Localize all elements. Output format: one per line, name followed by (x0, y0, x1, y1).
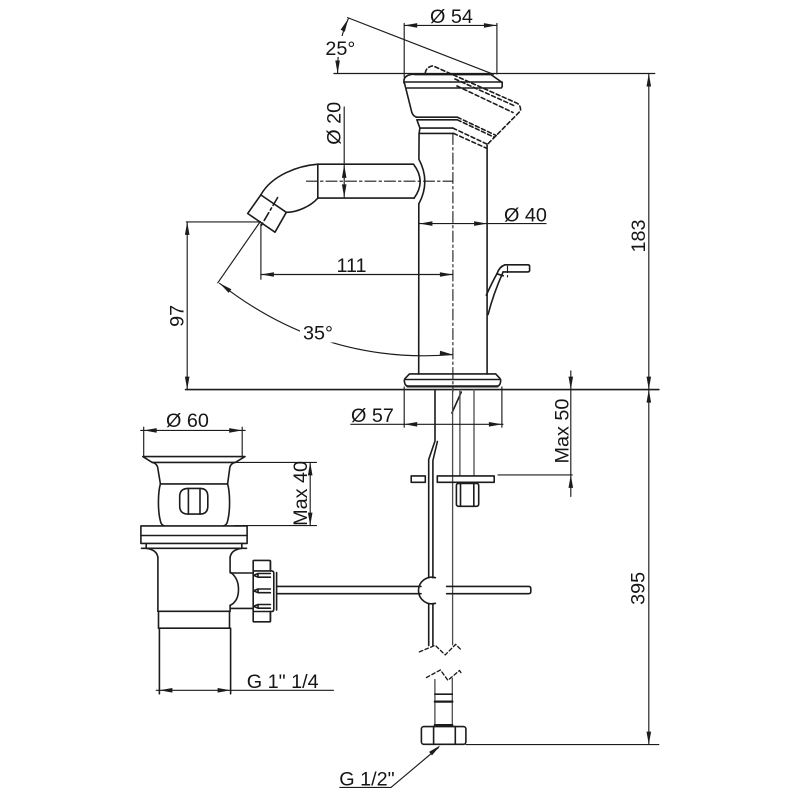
linkage housing on drain (230, 572, 253, 608)
lever handle (486, 265, 529, 315)
svg-text:Max 40: Max 40 (290, 461, 312, 526)
sink washer flange (141, 526, 247, 548)
dim 183 line (648, 74, 650, 390)
dim Ø40 arrows (419, 221, 432, 226)
spout bend inner (286, 198, 318, 212)
tilted cap top edge and end face (425, 66, 520, 145)
threaded stud line (452, 390, 454, 645)
knob body (405, 84, 458, 129)
counter top line (186, 389, 659, 391)
35deg arc arrows (220, 283, 232, 293)
35deg radial line (218, 222, 260, 283)
tailpiece G 1 1/4 (159, 628, 230, 694)
tilted knob bottom band (457, 117, 496, 135)
base flange (404, 374, 500, 387)
dim 395 arrows (647, 390, 652, 403)
dim Ø54 arrows (404, 23, 417, 28)
dim 111 arrows (261, 272, 274, 277)
25deg angular arc (338, 19, 349, 74)
dim Max40 line (309, 462, 311, 525)
dim 97 arrows (185, 222, 190, 235)
tilted neck rings (453, 128, 488, 144)
svg-text:Ø 54: Ø 54 (430, 6, 473, 28)
dim G1-1/4 arrows (159, 688, 172, 693)
head cap disc (404, 74, 502, 88)
dim Ø40 line (419, 223, 546, 225)
dim Ø57 line with text underline (351, 423, 503, 425)
svg-text:183: 183 (628, 219, 650, 252)
35deg angular arc (220, 283, 453, 355)
dim Ø20 arrows (342, 165, 347, 178)
183 top reference line (head top level) (334, 73, 655, 75)
mounting horseshoe washer plate (411, 476, 494, 482)
dim Ø54 extension lines (404, 23, 497, 77)
25deg slant line (348, 18, 494, 75)
tilted cap rim lines (455, 79, 516, 106)
25deg arc arrows (341, 19, 349, 32)
spout centerline (307, 180, 453, 182)
svg-text:Max 50: Max 50 (551, 399, 573, 464)
dim 183 arrows (647, 74, 652, 87)
mounting hex nut (456, 483, 478, 506)
supply hose upper lines (460, 390, 474, 476)
svg-text:Ø 20: Ø 20 (324, 102, 346, 145)
spout bend outer (261, 164, 318, 195)
svg-text:Ø 57: Ø 57 (351, 405, 394, 427)
drain lower body (158, 557, 230, 611)
dim Ø54 line (404, 24, 497, 26)
dim Ø57 extension lines (404, 387, 502, 427)
svg-text:G 1" 1/4: G 1" 1/4 (247, 671, 319, 693)
G1/2 hose nut (421, 727, 466, 745)
bottom reference line (466, 744, 659, 746)
G1/2 leader line with underline (340, 748, 439, 788)
lock ring band (158, 611, 230, 628)
neck rings (419, 128, 454, 133)
svg-text:Ø 60: Ø 60 (166, 410, 209, 432)
text mask 25deg (324, 36, 356, 57)
overflow window (180, 488, 208, 514)
dim 97 extension line (186, 221, 260, 223)
svg-text:395: 395 (628, 572, 650, 605)
dim Ø20 shaft (343, 107, 345, 197)
dim 97 line (186, 222, 188, 390)
spout-body fillet saddle (414, 159, 425, 204)
dim Max50 extension line (498, 474, 572, 476)
svg-text:97: 97 (167, 305, 189, 327)
dim Ø60 arrows (144, 428, 157, 433)
drain upper body (158, 484, 229, 526)
rod kink detail at base outlet (452, 392, 461, 413)
dim G1-1/4 line (156, 689, 333, 691)
dim Max40 extension lines (234, 462, 316, 525)
svg-text:35°: 35° (303, 323, 333, 345)
G1/2 leader arrow (429, 745, 440, 755)
dim Max50 shafts (570, 371, 572, 497)
break zigzag lower (427, 670, 462, 680)
dim Ø60 line (141, 429, 246, 431)
knurled linkage nut (253, 560, 276, 621)
knurl groove rows (254, 574, 271, 578)
svg-text:G 1/2": G 1/2" (339, 769, 394, 791)
dim 111 line (261, 274, 453, 276)
dim Ø60 extension lines (144, 427, 243, 456)
pop-up rod ball joint (418, 577, 435, 604)
pop-up pull rod upper (429, 390, 438, 646)
spout tip segment (248, 195, 287, 232)
horizontal actuating rod (277, 586, 531, 593)
body cylinder (419, 133, 487, 374)
body centerline (452, 134, 454, 393)
rubber cone (146, 548, 242, 557)
dim Ø57 arrows (404, 422, 417, 427)
svg-text:111: 111 (336, 255, 366, 277)
drain neck (152, 462, 235, 484)
lever pivot centerline tick (507, 266, 509, 277)
spout tip axis centerline (261, 198, 277, 226)
dim 395 line (648, 390, 650, 745)
text mask 35deg (300, 319, 336, 343)
break zigzag upper (419, 644, 461, 655)
drain flange (143, 457, 245, 463)
dim Max50 arrows (569, 377, 574, 390)
svg-text:25°: 25° (325, 38, 355, 60)
svg-text:Ø 40: Ø 40 (504, 205, 547, 227)
hose lower tube (435, 679, 452, 727)
dim 111 extension line (260, 225, 262, 280)
spout straight tube (318, 164, 414, 198)
dim Max40 arrows (308, 462, 313, 475)
